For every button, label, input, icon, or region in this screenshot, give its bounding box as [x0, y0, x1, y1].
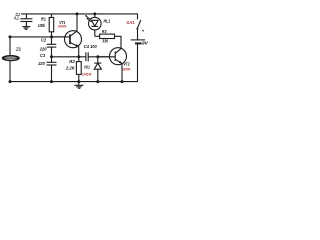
node C — [50, 55, 53, 58]
svg-text:220: 220 — [37, 61, 45, 66]
svg-text:2N3904: 2N3904 — [57, 25, 66, 29]
node J (VT1 collector at rail) — [76, 12, 79, 15]
capacitor C4 — [86, 52, 115, 61]
ground (under C1) — [22, 27, 30, 30]
svg-text:R1: R1 — [41, 16, 46, 21]
svg-text:VT2: VT2 — [123, 62, 130, 67]
svg-text:C4 100: C4 100 — [84, 44, 97, 49]
transistor VT1 — [52, 14, 82, 57]
svg-text:330: 330 — [102, 38, 108, 43]
svg-text:R2: R2 — [69, 59, 75, 64]
svg-text:+: + — [142, 28, 145, 33]
svg-text:C3: C3 — [40, 53, 45, 58]
svg-text:100k: 100k — [38, 23, 46, 28]
diode VD1 — [94, 57, 101, 82]
node K (LED at rail) — [93, 12, 96, 15]
svg-text:R3: R3 — [102, 29, 107, 34]
transistor VT2 — [98, 48, 127, 82]
svg-text:220: 220 — [39, 47, 47, 52]
node F — [9, 80, 12, 83]
svg-text:2N3906: 2N3906 — [122, 68, 130, 72]
battery GB 9V — [131, 40, 146, 44]
LED HL1 — [85, 14, 101, 36]
piezo Z1 — [3, 56, 19, 82]
node E — [50, 80, 53, 83]
switch SA1 — [136, 20, 141, 40]
svg-text:HL1: HL1 — [104, 18, 111, 23]
svg-text:SA1: SA1 — [126, 20, 135, 25]
resistor R2 — [76, 57, 81, 82]
wire Z1 top lead — [9, 37, 11, 56]
svg-text:9V: 9V — [142, 41, 149, 47]
ground (bottom) — [74, 82, 83, 89]
capacitor C1 — [20, 14, 32, 26]
node A — [50, 35, 53, 38]
svg-text:VD1: VD1 — [84, 65, 90, 70]
svg-text:C2: C2 — [41, 37, 46, 42]
node H — [96, 55, 99, 58]
wire base node VT1 — [10, 36, 70, 38]
svg-text:2.2K: 2.2K — [65, 65, 76, 70]
wire bottom rail and right riser — [10, 43, 138, 81]
resistor R1 — [49, 14, 54, 37]
capacitor C2 — [47, 37, 57, 57]
svg-text:0,1: 0,1 — [14, 15, 19, 20]
svg-text:Z1: Z1 — [15, 47, 21, 52]
node I — [96, 80, 99, 83]
node B — [9, 35, 12, 38]
node L (VT2 emitter at rail) — [121, 80, 124, 83]
resistor R3 — [95, 34, 121, 49]
wire emitter rail y57 — [52, 56, 86, 58]
node G — [77, 80, 80, 83]
svg-text:1N4148: 1N4148 — [82, 73, 91, 77]
wire top rail — [21, 14, 138, 20]
node D — [77, 55, 80, 58]
capacitor C3 — [47, 57, 57, 82]
